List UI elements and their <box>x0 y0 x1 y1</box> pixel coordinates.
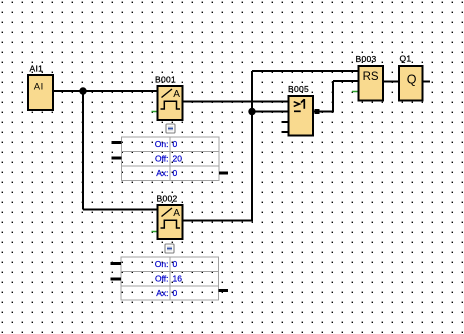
output block Q1 <box>399 66 423 101</box>
junction node to B005 input 2 <box>248 108 255 115</box>
svg-text:Ax:: Ax: <box>156 168 168 178</box>
input block AI1 <box>28 75 53 110</box>
svg-text:Q: Q <box>407 73 417 87</box>
svg-text:B001: B001 <box>155 75 176 85</box>
green parameter stub B003 <box>352 91 359 93</box>
wire junction drop to B002 <box>83 91 158 210</box>
green parameter stub B002 <box>152 231 158 233</box>
wire B001 output to B005 input 1 <box>183 101 289 103</box>
B005 output square node <box>315 109 320 114</box>
analog threshold trigger B001 <box>158 86 183 120</box>
svg-text:Ax:: Ax: <box>156 288 168 298</box>
svg-text:0: 0 <box>173 259 178 269</box>
or gate B005 <box>289 96 314 136</box>
svg-text:RS: RS <box>363 71 379 83</box>
svg-text:On:: On: <box>155 259 169 269</box>
wire B003 output to Q1 <box>383 81 399 83</box>
svg-text:Q1: Q1 <box>400 54 412 64</box>
junction node on AI1 wire <box>79 87 86 94</box>
svg-text:On:: On: <box>155 139 169 149</box>
RS latch B003 <box>359 66 384 101</box>
svg-text:AI: AI <box>34 82 44 93</box>
svg-text:0: 0 <box>173 139 178 149</box>
svg-text:B003: B003 <box>356 54 377 64</box>
svg-text:AI1: AI1 <box>30 64 44 74</box>
parameter box B001 <box>112 137 229 181</box>
svg-text:B002: B002 <box>157 194 178 204</box>
wire branch to B005 input 2 <box>252 111 289 113</box>
svg-text:A: A <box>173 89 180 100</box>
wire Q1 output stub <box>423 81 431 83</box>
svg-text:B005: B005 <box>288 84 309 94</box>
wire B002 output up to B003 input 1 <box>183 71 359 222</box>
svg-text:A: A <box>173 208 180 219</box>
svg-text:Off:: Off: <box>155 274 169 284</box>
svg-text:16: 16 <box>173 274 183 284</box>
expand button B001 <box>166 124 175 133</box>
parameter values B002: On 0, Off 16, Ax 0 <box>155 259 182 298</box>
parameter values B001: On 0, Off 20, Ax 0 <box>155 139 182 178</box>
svg-text:0: 0 <box>173 168 178 178</box>
svg-text:20: 20 <box>173 154 183 164</box>
wire B005 output to B003 input 2 <box>313 81 359 113</box>
B005 unused input stubs <box>282 122 289 132</box>
analog threshold trigger B002 <box>158 205 183 239</box>
parameter box B002 <box>111 257 229 300</box>
svg-text:0: 0 <box>173 288 178 298</box>
wire AI1 output to B001 input <box>53 90 158 92</box>
svg-text:Off:: Off: <box>155 154 169 164</box>
green parameter stub B001 <box>152 111 158 113</box>
expand button B002 <box>165 244 174 253</box>
